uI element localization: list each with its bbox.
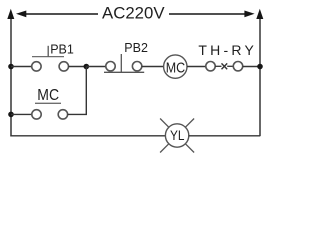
wire PB1 to node A (69, 66, 87, 68)
node left rail / rung 1 (8, 64, 14, 70)
auxiliary contact MC (NO) (32, 103, 68, 119)
wire bottom right (lamp to rail) (189, 135, 260, 137)
left rail L1 (7, 9, 14, 137)
wire MC contact to node A (up) (68, 67, 87, 115)
wire bottom left (rail to lamp) (11, 135, 165, 137)
wire PB2 to coil MC (142, 66, 164, 68)
svg-text:MC: MC (166, 60, 186, 77)
svg-text:TH-RY: TH-RY (198, 42, 254, 58)
contactor coil MC (164, 55, 187, 78)
node right rail / rung 1 (257, 64, 263, 70)
node left rail / MC branch (8, 112, 14, 118)
lamp YL (160, 119, 194, 153)
wire rail to MC contact (11, 113, 32, 115)
svg-text:PB1: PB1 (50, 43, 74, 57)
pushbutton PB1 (NO) (32, 46, 69, 71)
svg-text:AC220V: AC220V (102, 5, 165, 23)
right rail L2 (256, 9, 263, 137)
wire coil to TH-RY (187, 66, 206, 68)
node A (junction PB1/PB2/MC branch) (84, 64, 90, 70)
wire node A to PB2 (86, 66, 106, 68)
svg-text:MC: MC (37, 87, 59, 104)
dimension arrow AC220V left (16, 11, 98, 18)
wire TH-RY to right rail (243, 66, 260, 68)
thermal relay contact TH-RY (206, 61, 243, 70)
svg-text:YL: YL (170, 128, 185, 143)
wire rail to PB1 (11, 66, 32, 68)
svg-text:PB2: PB2 (124, 41, 148, 55)
dimension arrow AC220V right (169, 11, 255, 18)
pushbutton PB2 (NC) (104, 54, 144, 72)
